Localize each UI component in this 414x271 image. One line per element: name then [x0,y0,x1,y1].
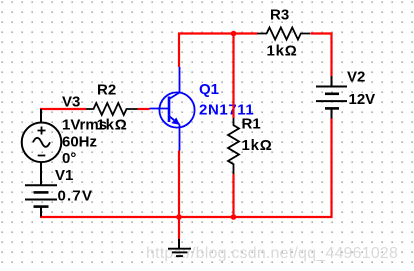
svg-text:1kΩ: 1kΩ [97,117,128,134]
wire R1 top [232,34,234,119]
resistor R3 [257,28,310,40]
svg-text:Q1: Q1 [199,81,219,98]
resistor R2 [86,103,138,115]
svg-text:1kΩ: 1kΩ [242,137,273,154]
ground [168,239,191,256]
AC source V3 [22,109,62,185]
svg-text:V1: V1 [55,167,73,184]
junction bottom bus emitter [176,214,182,220]
svg-text:R3: R3 [270,7,289,24]
transistor Q1 [150,67,195,151]
wire V3 to R2 [40,108,86,110]
wire Q1 collector riser [178,34,180,68]
wire bottom bus [40,216,333,218]
wire ground stub [178,217,180,240]
battery V2 [316,76,347,119]
svg-text:2N1711: 2N1711 [199,102,254,119]
resistor R1 [228,118,239,174]
wire R1 bottom [232,174,234,217]
wire R2 to Q1 base [138,108,150,110]
svg-text:1kΩ: 1kΩ [267,43,298,60]
wire right riser top [330,33,332,77]
wire Q1 emitter down [178,151,180,218]
wire top bus left [178,32,258,34]
svg-text:https://blog.csdn.net/qq_44961: https://blog.csdn.net/qq_44961028 [146,245,398,262]
battery V1 [25,185,57,216]
svg-text:60Hz: 60Hz [62,134,97,151]
svg-text:V2: V2 [347,69,365,86]
junction bottom bus R1 [231,214,237,220]
svg-text:12V: 12V [349,91,376,108]
svg-text:0.7V: 0.7V [58,188,94,205]
svg-text:0°: 0° [62,150,76,167]
wire right riser bottom [330,118,332,218]
junction top bus R1 [231,31,237,37]
svg-text:R2: R2 [97,82,116,99]
wire top bus right [311,32,333,34]
